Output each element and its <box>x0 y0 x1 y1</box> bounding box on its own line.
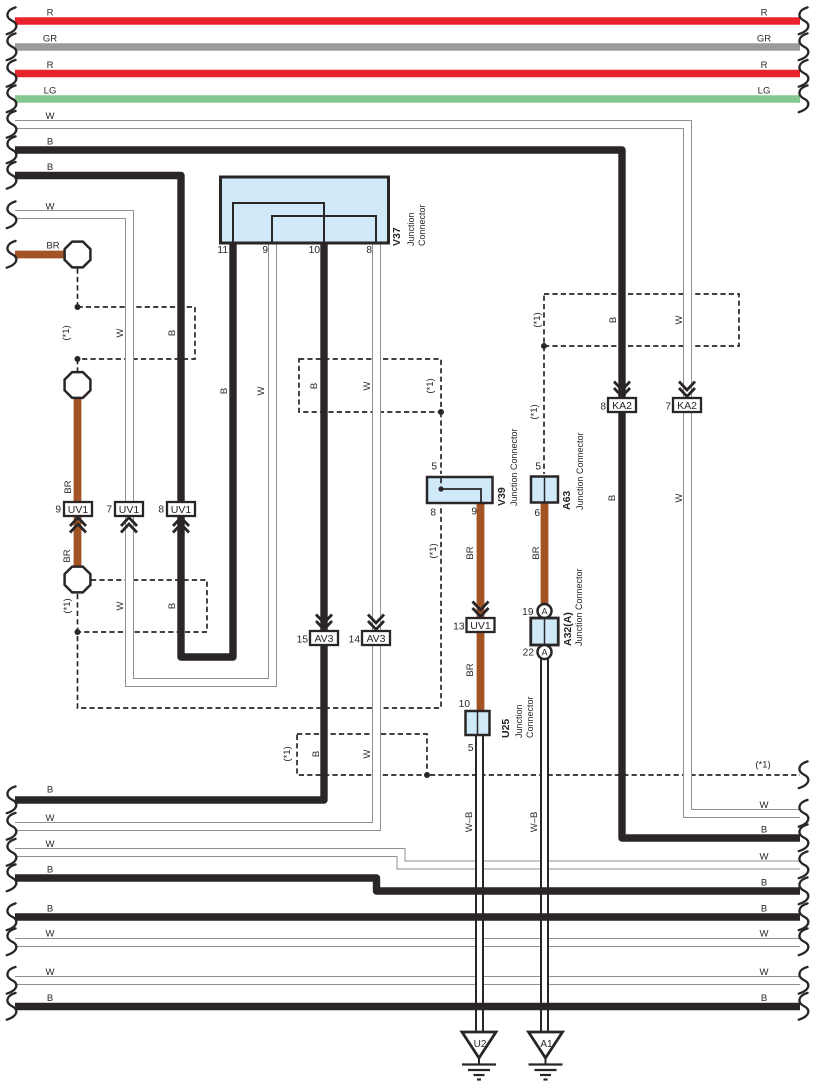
svg-text:KA2: KA2 <box>677 400 697 412</box>
svg-text:UV1: UV1 <box>68 504 89 516</box>
wire break symbol, left edge, wire W 1 <box>7 111 17 138</box>
svg-text:Connector: Connector <box>417 204 427 246</box>
svg-text:19: 19 <box>522 607 534 618</box>
junction connector V39 <box>427 428 519 518</box>
svg-text:5: 5 <box>468 743 474 754</box>
svg-text:B: B <box>47 785 53 796</box>
wire GR (gray, top horizontal 2) <box>15 34 800 48</box>
svg-text:A1: A1 <box>540 1039 553 1050</box>
svg-text:R: R <box>761 8 768 19</box>
wire break symbol, right edge, wire B y1003 <box>799 993 809 1020</box>
wire break symbol, right edge, wire W y939 <box>799 928 809 955</box>
wire B (black, from left edge through 8 UV1 up to V37 pin 11) <box>15 162 233 657</box>
wire break symbol, right edge, dashed (*1) <box>799 761 809 788</box>
svg-text:B: B <box>761 878 767 889</box>
wire break symbol, right edge, wire R 1 <box>799 7 809 34</box>
svg-text:W: W <box>46 202 55 213</box>
svg-text:9: 9 <box>262 245 268 256</box>
svg-text:LG: LG <box>44 86 57 97</box>
node C: junction dot D3 <box>75 629 81 635</box>
junction connector A32(A) with terminals 19 and 22 <box>522 568 584 659</box>
svg-text:W: W <box>760 852 769 863</box>
svg-text:GR: GR <box>757 34 771 45</box>
node (*1) dashed option box at octagon J3 (lower left) <box>62 580 207 632</box>
svg-text:W: W <box>760 967 769 978</box>
wire break symbol, left edge, wire R 1 <box>7 7 17 34</box>
wire break symbol, right edge, wire W y813 <box>799 800 809 827</box>
wire W (white, full-width horizontal 1) <box>15 929 800 943</box>
node E: junction dot D5 <box>541 343 547 349</box>
svg-text:B: B <box>761 825 767 836</box>
svg-text:8: 8 <box>600 402 606 413</box>
connector 8 UV1 <box>158 502 195 533</box>
svg-text:W–B: W–B <box>529 812 540 833</box>
svg-text:Junction Connector: Junction Connector <box>509 428 519 506</box>
connector octagon J2 <box>65 372 91 398</box>
connector octagon J1 <box>65 242 91 268</box>
wire break symbol, left edge, wire B y800 <box>7 786 17 813</box>
wire break symbol, right edge, wire B y889 <box>799 877 809 904</box>
svg-text:14: 14 <box>349 635 361 646</box>
wire break symbol, right edge, wire R 2 <box>799 60 809 87</box>
svg-text:Junction: Junction <box>514 704 524 738</box>
wire break symbol, left edge, wire LG <box>7 85 17 112</box>
svg-text:(*1): (*1) <box>425 378 436 393</box>
svg-text:8: 8 <box>158 505 164 516</box>
wire B (black, full-width horizontal 2, bottom) <box>15 993 800 1007</box>
connector 7 KA2 <box>665 382 701 413</box>
wire BR (brown, left edge to octagon J1) <box>15 241 66 255</box>
node B: junction dot D2 <box>75 356 81 362</box>
svg-text:22: 22 <box>523 648 535 659</box>
svg-text:B: B <box>167 330 178 336</box>
junction connector V37 <box>217 177 427 256</box>
svg-text:B: B <box>607 495 618 501</box>
wire W-B border overdraw (U25 to ground U2) <box>476 735 483 1033</box>
wire B (black, stepped horizontal left edge to right edge) <box>15 865 800 892</box>
svg-text:A32(A): A32(A) <box>562 612 574 646</box>
svg-text:UV1: UV1 <box>119 504 140 516</box>
svg-text:BR: BR <box>465 663 476 676</box>
svg-text:B: B <box>47 993 53 1004</box>
svg-text:W: W <box>46 967 55 978</box>
wire: dashed link dot D5 down to A63 pin 5 <box>529 346 544 474</box>
wire break symbol, left edge, wire W y939 <box>7 928 17 955</box>
svg-text:13: 13 <box>453 622 465 633</box>
svg-text:9: 9 <box>471 507 477 518</box>
wire break symbol, left edge, wire GR <box>7 33 17 60</box>
wire break symbol, left edge, wire W y846 <box>7 839 17 866</box>
svg-text:B: B <box>608 317 619 323</box>
svg-text:(*1): (*1) <box>755 760 770 771</box>
svg-text:A: A <box>541 648 547 658</box>
svg-text:5: 5 <box>535 462 541 473</box>
svg-text:W: W <box>760 929 769 940</box>
wire: dashed link octagon J1 to node dot D1 <box>77 269 79 305</box>
svg-text:(*1): (*1) <box>532 312 543 327</box>
svg-text:10: 10 <box>309 245 321 256</box>
node F: junction dot D6 <box>424 772 430 778</box>
svg-text:V39: V39 <box>496 487 508 506</box>
svg-text:W: W <box>115 601 126 610</box>
svg-text:(*1): (*1) <box>61 325 72 340</box>
wire break symbol, left edge, wire BR <box>7 241 17 268</box>
svg-text:W: W <box>362 749 373 758</box>
connector 9 UV1 <box>55 502 92 533</box>
svg-text:5: 5 <box>431 462 437 473</box>
wire break symbol, left edge, wire B y874 <box>7 864 17 891</box>
wire R (red, top horizontal 1) <box>15 8 800 22</box>
ground U2 <box>462 1032 496 1080</box>
svg-text:B: B <box>47 162 53 173</box>
svg-text:(*1): (*1) <box>428 543 439 558</box>
svg-text:BR: BR <box>46 241 59 252</box>
wire break symbol, left edge, wire W y975 <box>7 967 17 994</box>
svg-text:W–B: W–B <box>464 812 475 833</box>
svg-text:UV1: UV1 <box>470 620 491 632</box>
svg-text:KA2: KA2 <box>612 400 632 412</box>
svg-text:Junction Connector: Junction Connector <box>575 432 585 510</box>
connector 14 AV3 <box>349 615 390 646</box>
wire: dashed link octagon J3 down to V39 pin 8 <box>78 505 442 708</box>
wire break symbol, right edge, wire GR <box>799 33 809 60</box>
svg-text:B: B <box>167 603 178 609</box>
svg-text:AV3: AV3 <box>366 633 385 645</box>
svg-text:B: B <box>761 993 767 1004</box>
svg-text:W: W <box>760 800 769 811</box>
wire B (black, from left edge through 8 KA2 to right edge) <box>15 137 800 839</box>
svg-text:LG: LG <box>758 86 771 97</box>
svg-text:B: B <box>47 865 53 876</box>
wire LG (light green, top horizontal 4) <box>15 86 800 100</box>
wire W (white, full-width horizontal 2) <box>15 967 800 981</box>
svg-text:W: W <box>674 493 685 502</box>
svg-text:AV3: AV3 <box>314 633 333 645</box>
svg-text:(*1): (*1) <box>529 404 540 419</box>
node (*1) dashed option box around wires B and W (upper right) <box>532 294 739 346</box>
svg-text:Connector: Connector <box>525 696 535 738</box>
svg-text:10: 10 <box>459 699 471 710</box>
svg-text:BR: BR <box>62 549 73 562</box>
svg-text:B: B <box>309 383 320 389</box>
svg-text:6: 6 <box>534 508 540 519</box>
wire: dashed link dot D6 to right edge (*1) <box>430 760 800 776</box>
wire W-B (white-black, A32(A) terminal 22 down to ground A1) <box>529 659 545 1033</box>
svg-text:W: W <box>46 111 55 122</box>
svg-text:7: 7 <box>665 402 671 413</box>
wire break symbol, right edge, wire W y975 <box>799 967 809 994</box>
svg-text:GR: GR <box>43 34 57 45</box>
wire W (white, from left edge through 7 KA2 to right edge) <box>15 111 800 814</box>
svg-text:8: 8 <box>430 508 436 519</box>
svg-text:7: 7 <box>106 505 112 516</box>
svg-text:Junction Connector: Junction Connector <box>574 568 584 646</box>
wire: dashed link dot D2 to octagon J2 <box>77 359 79 371</box>
connector octagon J3 <box>65 567 91 593</box>
svg-text:BR: BR <box>465 546 476 559</box>
wire break symbol, left edge, wire B y916 <box>7 903 17 930</box>
node D: junction dot D4 <box>438 409 444 415</box>
svg-text:W: W <box>46 929 55 940</box>
ground A1 <box>529 1032 563 1080</box>
connector 13 UV1 <box>453 602 494 633</box>
wire break symbol, right edge, wire LG <box>799 85 809 112</box>
wire BR (brown, V39 pin 9 down through 13 UV1 to U25 pin 10) <box>465 502 481 712</box>
junction connector U25 <box>459 696 535 754</box>
wire break symbol, left edge, wire W 2 <box>7 201 17 228</box>
svg-text:Junction: Junction <box>406 212 416 246</box>
svg-text:11: 11 <box>217 245 228 256</box>
svg-text:W: W <box>362 381 373 390</box>
wire W-B (white-black, U25 pin 5 down to ground U2) <box>464 735 480 1033</box>
svg-text:W: W <box>46 839 55 850</box>
wire break symbol, left edge, wire B y1003 <box>7 993 17 1020</box>
wire BR (brown, A63 pin 6 down to terminal 19 circle A) <box>531 502 545 605</box>
svg-text:W: W <box>256 386 267 395</box>
svg-text:9: 9 <box>55 505 61 516</box>
wire B (black, full-width horizontal 1) <box>15 904 800 918</box>
wire break symbol, left edge, wire R 2 <box>7 60 17 87</box>
svg-text:B: B <box>47 904 53 915</box>
node A: junction dot D1 <box>75 304 81 310</box>
wire break symbol, left edge, wire W y821 <box>7 813 17 840</box>
junction connector A63 <box>531 432 585 519</box>
svg-text:15: 15 <box>297 635 309 646</box>
svg-text:BR: BR <box>531 546 542 559</box>
wire B (black, V37 pin 10 down through 15 AV3 to left edge) <box>15 241 324 800</box>
svg-text:U2: U2 <box>474 1039 487 1050</box>
svg-text:W: W <box>115 328 126 337</box>
node (*1) dashed option box around wires W and B (upper left) <box>61 307 195 359</box>
wire: dashed link dot D4 down to V39 pin 5 <box>440 412 442 474</box>
svg-text:B: B <box>47 137 53 148</box>
node (*1) dashed option box around wires B and W (middle, below V37) <box>299 359 441 412</box>
wire W (white, from left edge through 7 UV1 up to V37 pin 9) <box>15 202 273 683</box>
svg-text:W: W <box>46 813 55 824</box>
svg-text:R: R <box>761 60 768 71</box>
svg-text:(*1): (*1) <box>62 598 73 613</box>
svg-text:8: 8 <box>366 245 372 256</box>
svg-text:BR: BR <box>63 480 74 493</box>
connector 7 UV1 <box>106 502 143 533</box>
svg-text:U25: U25 <box>500 719 512 738</box>
svg-text:B: B <box>761 904 767 915</box>
svg-text:B: B <box>219 388 230 394</box>
wire break symbol, right edge, wire B y916 <box>799 903 809 930</box>
wire break symbol, right edge, wire W y861 <box>799 851 809 878</box>
connector 8 KA2 <box>600 382 636 413</box>
svg-text:UV1: UV1 <box>171 504 192 516</box>
connector 15 AV3 <box>297 615 338 646</box>
svg-text:R: R <box>47 8 54 19</box>
wire W-B border overdraw (A32(A) to ground A1) <box>541 659 548 1033</box>
wire W (white, V37 pin 8 down through 14 AV3 to left edge) <box>15 241 377 827</box>
svg-text:V37: V37 <box>391 227 403 246</box>
wire R (red, top horizontal 3) <box>15 60 800 74</box>
svg-text:A: A <box>541 607 547 617</box>
wire BR (brown, octagon J2 through 9 UV1 to octagon J3) <box>62 398 78 567</box>
wire break symbol, left edge, wire B 2 <box>7 162 17 189</box>
wire W (white, stepped horizontal left edge to right edge) <box>15 839 800 865</box>
svg-text:(*1): (*1) <box>282 746 293 761</box>
wire break symbol, left edge, wire B 1 <box>7 136 17 163</box>
node (*1) dashed option box around wires B and W (above U25) <box>282 734 427 775</box>
svg-text:A63: A63 <box>561 491 573 510</box>
wire break symbol, right edge, wire B y838 <box>799 824 809 851</box>
svg-text:R: R <box>47 60 54 71</box>
